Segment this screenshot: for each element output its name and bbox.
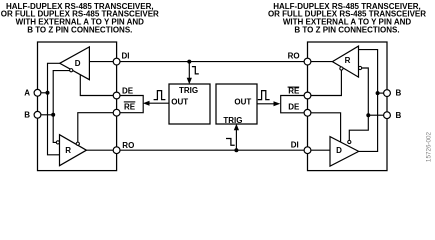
svg-text:B TO Z PIN CONNECTIONS.: B TO Z PIN CONNECTIONS. bbox=[27, 26, 132, 35]
svg-text:OUT: OUT bbox=[234, 98, 251, 107]
svg-text:DI: DI bbox=[122, 51, 130, 60]
svg-text:D: D bbox=[336, 146, 342, 155]
svg-text:B: B bbox=[396, 89, 402, 98]
svg-text:B: B bbox=[24, 110, 30, 119]
svg-text:RE: RE bbox=[288, 87, 300, 96]
svg-text:R: R bbox=[65, 146, 71, 155]
svg-text:RE: RE bbox=[124, 102, 136, 111]
svg-text:D: D bbox=[75, 59, 81, 68]
svg-text:DE: DE bbox=[122, 86, 134, 95]
svg-text:RO: RO bbox=[288, 51, 300, 60]
svg-text:R: R bbox=[345, 56, 351, 65]
svg-text:TRIG: TRIG bbox=[223, 116, 242, 125]
svg-text:TRIG: TRIG bbox=[179, 86, 198, 95]
svg-text:OUT: OUT bbox=[171, 98, 188, 107]
svg-text:DI: DI bbox=[291, 140, 299, 149]
svg-text:B TO Z PIN CONNECTIONS.: B TO Z PIN CONNECTIONS. bbox=[294, 26, 399, 35]
svg-text:B: B bbox=[396, 111, 402, 120]
svg-text:A: A bbox=[24, 88, 30, 97]
svg-text:15726-002: 15726-002 bbox=[426, 131, 433, 162]
svg-text:RO: RO bbox=[122, 141, 134, 150]
svg-text:DE: DE bbox=[288, 103, 300, 112]
